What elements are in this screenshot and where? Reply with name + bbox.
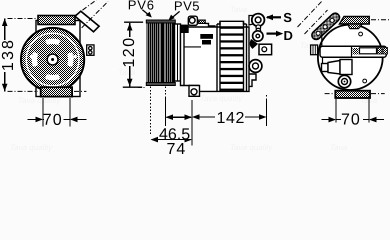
svg-text:138: 138: [0, 38, 17, 71]
svg-text:70: 70: [341, 112, 361, 129]
svg-text:Tava quality: Tava quality: [200, 94, 243, 103]
svg-text:142: 142: [216, 110, 245, 127]
svg-text:PV6: PV6: [128, 0, 155, 12]
svg-text:Tava: Tava: [300, 41, 318, 50]
svg-text:Tava: Tava: [118, 68, 136, 77]
svg-text:S: S: [283, 10, 292, 25]
svg-text:D: D: [283, 28, 292, 43]
svg-text:Tava: Tava: [360, 96, 378, 105]
svg-text:Tava: Tava: [230, 5, 248, 14]
svg-text:Tava quality: Tava quality: [18, 96, 61, 105]
svg-text:Tava: Tava: [330, 143, 348, 152]
svg-text:120: 120: [121, 36, 138, 67]
svg-text:PV5: PV5: [174, 0, 200, 13]
svg-text:Tava quality: Tava quality: [10, 143, 53, 152]
svg-text:70: 70: [43, 112, 63, 129]
svg-text:Tava quality: Tava quality: [230, 143, 273, 152]
svg-text:74: 74: [166, 141, 186, 154]
